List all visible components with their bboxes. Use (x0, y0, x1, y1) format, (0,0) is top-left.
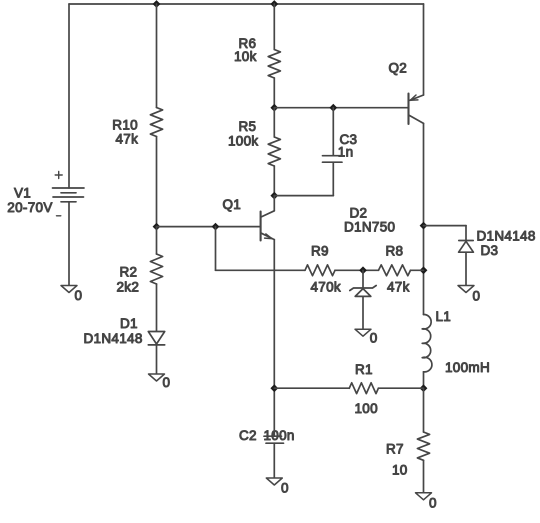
label R2 2k2 (117, 265, 140, 295)
node top-R10 junction (153, 0, 161, 8)
ground below V1 (61, 286, 77, 293)
capacitor C2 (264, 436, 284, 443)
svg-text:1n: 1n (338, 145, 354, 160)
svg-text:0: 0 (75, 288, 83, 303)
wire node to R1 (274, 387, 349, 389)
label R8 47k (386, 244, 410, 295)
svg-text:2k2: 2k2 (117, 280, 140, 295)
svg-text:10: 10 (392, 463, 408, 478)
label ground 0 (R7) (429, 496, 437, 511)
wire L1 to node (423, 372, 425, 388)
wire R10 to node (156, 137, 158, 227)
wire collector to D3 (424, 226, 467, 241)
resistor R10 (150, 108, 162, 137)
wire Q2 collector down (423, 123, 425, 314)
label V1 value (7, 186, 52, 216)
label ground 0 (D3) (473, 289, 481, 304)
svg-text:R2: R2 (120, 265, 138, 280)
wire zener to ground (362, 296, 364, 329)
svg-text:D1: D1 (120, 316, 138, 331)
wire top to R10 (156, 4, 158, 108)
svg-text:100k: 100k (228, 134, 258, 149)
svg-text:Q2: Q2 (389, 61, 408, 76)
label Q1 (223, 197, 242, 212)
wire top to Q2 emitter (423, 4, 425, 95)
label R5 100k (228, 119, 258, 149)
wire R6 to node (273, 78, 275, 108)
svg-text:0: 0 (429, 496, 437, 511)
battery V1 (53, 172, 85, 216)
node R8-collector junction (420, 266, 428, 274)
wire node to Q2 base (274, 107, 408, 109)
zener diode D2 (350, 286, 376, 297)
label R9 470k (311, 244, 341, 295)
label R7 10 (386, 442, 408, 478)
label R1 100 (355, 362, 378, 416)
svg-text:L1: L1 (436, 309, 452, 324)
ground below D3 (458, 286, 474, 293)
resistor R2 (150, 254, 162, 284)
svg-text:Q1: Q1 (223, 197, 242, 212)
svg-text:20-70V: 20-70V (7, 200, 52, 215)
wire top to R6 (273, 4, 275, 50)
wire base tap down (216, 227, 306, 271)
label ground 0 (C2) (281, 481, 289, 496)
node zener junction (359, 266, 367, 274)
resistor R7 (417, 432, 429, 460)
svg-text:100mH: 100mH (445, 360, 490, 375)
wire R2 to D1 (156, 284, 158, 332)
wire C3 bottom to node (274, 162, 333, 195)
svg-text:100n: 100n (264, 428, 295, 443)
wire node to R5 (273, 108, 275, 137)
svg-text:V1: V1 (14, 186, 31, 201)
wire V1 top lead (68, 4, 70, 188)
svg-text:R1: R1 (355, 362, 373, 377)
transistor Q1 (261, 196, 275, 241)
label ground 0 (D2) (370, 331, 378, 346)
wire R7 to ground (423, 460, 425, 493)
node D3 tap (420, 222, 428, 230)
inductor L1 (422, 314, 432, 371)
svg-text:D1N4148: D1N4148 (477, 229, 536, 244)
ground below R7 (416, 493, 432, 500)
svg-text:0: 0 (281, 481, 289, 496)
svg-text:R5: R5 (239, 119, 257, 134)
node C3 tap (329, 104, 337, 112)
wire base node to Q1 (157, 226, 261, 228)
label ground 0 (V1) (75, 288, 83, 303)
resistor R8 (379, 265, 411, 276)
wire zener top lead (362, 270, 364, 288)
node L1/R1/R7 junction (420, 384, 428, 392)
svg-text:R7: R7 (386, 442, 404, 457)
diode D1 (148, 332, 164, 345)
resistor R6 (268, 50, 280, 79)
node R10/R2/base junction (153, 223, 161, 231)
wire Q1 emitter down (273, 240, 275, 437)
wire node to R7 (423, 388, 425, 432)
wire emitter node (270, 384, 278, 392)
wire R1 to L1 node (378, 387, 423, 389)
svg-text:47k: 47k (116, 132, 139, 147)
capacitor C3 (323, 156, 343, 163)
resistor R1 (349, 383, 378, 394)
diode D3 (459, 241, 474, 253)
svg-text:R9: R9 (311, 244, 329, 259)
wire D3 to ground (465, 252, 467, 285)
label R10 47k (112, 118, 138, 147)
label C2 100n (239, 428, 295, 443)
node base-R9 tap (212, 223, 220, 231)
wire top rail (69, 3, 424, 5)
wire D1 to ground (156, 345, 158, 374)
node R5/C3/Q1-collector junction (270, 192, 278, 200)
wire R9 to R8 (335, 269, 379, 271)
wire R5 to collector node (273, 166, 275, 196)
svg-text:0: 0 (473, 289, 481, 304)
ground below C2 (266, 478, 282, 485)
node R6/R5/Q2-base junction (270, 104, 278, 112)
label R6 10k (234, 36, 257, 64)
label ground 0 (D1) (163, 375, 171, 390)
label C3 1n (338, 132, 358, 160)
label L1 100mH (436, 309, 491, 375)
label D2 D1N750 (344, 206, 395, 235)
wire C3 top lead (332, 108, 334, 156)
svg-text:D3: D3 (481, 243, 499, 258)
transistor Q2 (409, 94, 424, 125)
ground below D1 (149, 374, 165, 381)
ground below D2 (355, 329, 371, 336)
svg-text:0: 0 (163, 375, 171, 390)
svg-text:D1N4148: D1N4148 (84, 331, 143, 346)
label D3 D1N4148 (477, 229, 536, 259)
label Q2 (389, 61, 408, 76)
svg-text:D1N750: D1N750 (344, 220, 395, 235)
wire R8 to collector (411, 269, 424, 271)
svg-text:D2: D2 (350, 206, 368, 221)
svg-text:R8: R8 (386, 244, 404, 259)
wire C2 to ground (273, 443, 275, 478)
svg-text:100: 100 (355, 401, 378, 416)
label D1 D1N4148 (84, 316, 143, 346)
svg-text:0: 0 (370, 331, 378, 346)
svg-text:47k: 47k (387, 280, 410, 295)
svg-text:10k: 10k (234, 49, 257, 64)
resistor R9 (305, 265, 335, 276)
svg-text:470k: 470k (311, 280, 341, 295)
svg-text:R10: R10 (112, 118, 138, 133)
wire node to R2 (156, 227, 158, 254)
resistor R5 (268, 137, 280, 166)
svg-text:C2: C2 (239, 428, 257, 443)
node top-R6 junction (270, 0, 278, 8)
wire V1 bottom lead (68, 202, 70, 286)
